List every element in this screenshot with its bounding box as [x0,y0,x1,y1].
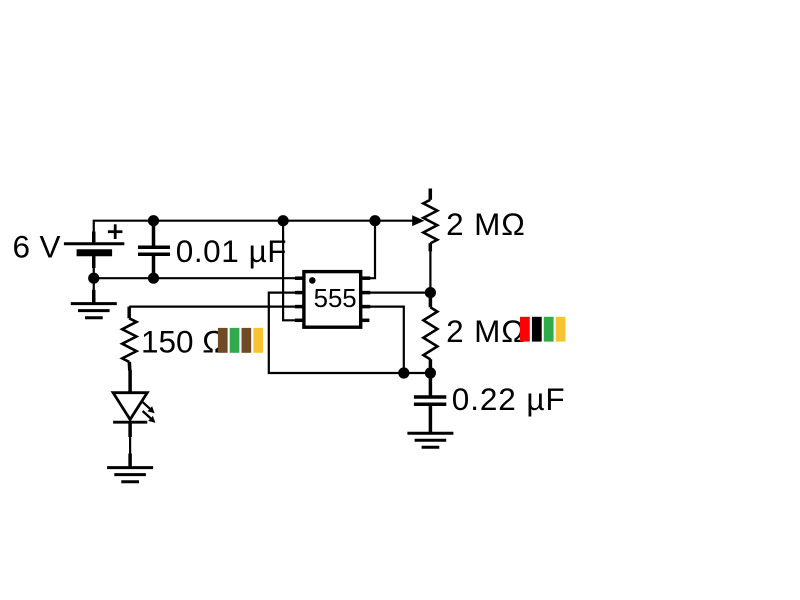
svg-text:150 Ω: 150 Ω [141,324,226,360]
svg-text:0.22 µF: 0.22 µF [452,381,566,417]
svg-text:555: 555 [314,285,357,313]
svg-text:6 V: 6 V [13,229,61,265]
svg-text:0.01 µF: 0.01 µF [176,233,287,269]
svg-text:2 MΩ: 2 MΩ [446,313,526,349]
svg-text:2 MΩ: 2 MΩ [446,206,526,242]
